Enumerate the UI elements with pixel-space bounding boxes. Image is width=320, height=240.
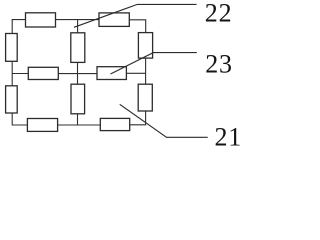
leader line for label 22 (74, 4, 197, 27)
resistor R6 (left column lower vertical) (6, 86, 18, 113)
leader line for label 23 (111, 53, 197, 74)
resistor R3 (middle-left horizontal) (28, 67, 58, 79)
svg-text:22: 22 (205, 0, 233, 28)
wire bottom center (R11 right to R12 left) (58, 124, 101, 126)
wire top-right corner (R2 right to right column) (129, 20, 145, 33)
wire left column between R5 and R6 (11, 61, 13, 86)
wire stub bottom junction up to R8 (77, 114, 79, 126)
resistor R1 (top-left horizontal) (26, 13, 56, 27)
wire top-left corner (node left-top to R1) (12, 20, 25, 34)
wire stub middle junction between R7 and R8 (77, 62, 79, 84)
resistor R2 (top-middle horizontal) (99, 13, 129, 27)
wire middle center (R3 right to R4 left) (58, 73, 97, 75)
wire stub top junction down to R7 (77, 20, 79, 33)
leader line for label 21 (120, 104, 208, 137)
svg-text:23: 23 (205, 49, 233, 78)
resistor R12 (bottom-middle horizontal) (100, 118, 129, 130)
wire right column between R9 and R10 (145, 58, 147, 84)
wire middle-left (left node to R3) (12, 73, 28, 75)
wire middle-right (R4 right to right column node) (126, 72, 145, 74)
resistor R4 (middle-center horizontal) (97, 67, 126, 80)
resistor R8 (middle column lower vertical) (71, 84, 85, 114)
wire bottom-left corner (left column down to R11) (12, 113, 27, 125)
resistor R9 (right column upper vertical) (138, 33, 152, 59)
resistor R5 (left column upper vertical) (6, 34, 18, 62)
wire bottom-right corner (R12 right to R10 bottom) (130, 111, 146, 125)
resistor R11 (bottom-left horizontal) (27, 119, 57, 132)
resistor R7 (middle column upper vertical) (71, 33, 85, 63)
resistor R10 (right column lower vertical) (138, 84, 152, 111)
svg-text:21: 21 (215, 122, 241, 149)
wire top middle (R1 right to R2 left) (56, 19, 100, 21)
